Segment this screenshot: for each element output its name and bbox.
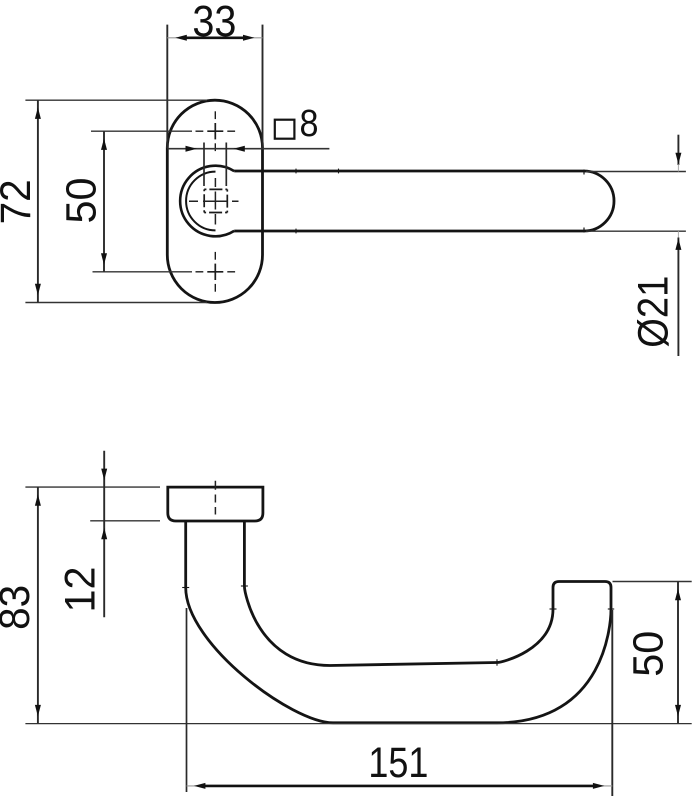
- bar junction tick 3: [295, 229, 297, 234]
- dim square8 arrow left: [186, 146, 198, 152]
- dim 151 line: [187, 785, 613, 787]
- dim 33 extension line right: [262, 25, 264, 148]
- square symbol of label: [275, 120, 295, 139]
- joint tick tip right: [608, 608, 614, 610]
- dim 151 extension line right: [611, 610, 613, 796]
- dim 50 arrow top: [101, 138, 107, 150]
- dim 12 line: [103, 451, 105, 618]
- dim 72 line: [37, 100, 39, 302]
- dim 33 extension line left: [166, 25, 168, 148]
- bar junction tick 2: [338, 169, 340, 174]
- svg-text:50: 50: [58, 178, 106, 224]
- screw hole cross bottom: [196, 252, 236, 292]
- bottom tangent extension line: [25, 723, 691, 725]
- dim dia21 line: [677, 135, 679, 165]
- dim 50 line: [103, 131, 105, 272]
- dim 151 arrow right: [593, 783, 605, 789]
- dim dia21 arrow bottom: [675, 238, 681, 250]
- dim square8 leader line: [167, 148, 329, 150]
- dim 83 extension line top: [25, 486, 160, 488]
- dim 50b arrow top: [675, 589, 681, 601]
- spindle center line horizontal: [189, 200, 239, 202]
- dim 33 arrow left: [175, 35, 187, 41]
- dim 50b arrow bottom: [675, 705, 681, 717]
- dim 72 extension line top: [25, 99, 207, 101]
- dim 83 line: [37, 487, 39, 723]
- handle side profile outline: [186, 521, 611, 723]
- dim dia21 extension line bottom: [586, 230, 686, 232]
- dim 83 arrow top: [35, 494, 41, 506]
- handle bar outline: [234, 171, 614, 231]
- svg-text:83: 83: [0, 585, 39, 630]
- svg-text:72: 72: [0, 179, 40, 224]
- dim 72 arrow bottom: [35, 284, 41, 296]
- dim 83 arrow bottom: [35, 705, 41, 717]
- dim 72 extension line bottom: [25, 302, 207, 304]
- dim 12 extension line bottom: [90, 520, 160, 522]
- dim 50 extension line bottom: [93, 271, 193, 273]
- spindle square (dashed): [204, 189, 227, 212]
- dim 12 arrow top: [101, 469, 107, 481]
- svg-text:50: 50: [625, 631, 673, 677]
- dim 50 arrow bottom: [101, 253, 107, 264]
- dim 12 arrow bottom: [101, 528, 107, 540]
- collar outer arc: [180, 166, 234, 237]
- joint tick neck right: [241, 585, 248, 587]
- joint tick neck left: [182, 587, 189, 589]
- dim 50b line: [677, 582, 679, 724]
- dim 151 arrow left: [194, 783, 206, 789]
- svg-text:8: 8: [300, 103, 319, 145]
- dim 33 arrow right: [243, 35, 255, 41]
- dim square8 arrow right: [233, 146, 245, 152]
- dim 72 arrow top: [35, 107, 41, 119]
- rosette center line: [214, 481, 216, 515]
- dim dia21 extension line top: [586, 171, 686, 173]
- screw hole cross top: [196, 111, 236, 151]
- joint tick tip left: [550, 608, 557, 610]
- cap tangent tick bottom: [583, 228, 585, 233]
- svg-text:33: 33: [192, 0, 236, 46]
- handle neck inner arc (bar left cap): [186, 172, 215, 231]
- joint tick inner bottom: [496, 659, 498, 665]
- dim 50 extension line top: [91, 130, 192, 132]
- dim square8 extension line right: [225, 143, 227, 187]
- svg-text:151: 151: [368, 739, 428, 787]
- bar junction tick 1: [295, 169, 297, 174]
- rosette side profile: [168, 487, 263, 521]
- svg-text:Ø21: Ø21: [629, 276, 677, 348]
- svg-text:12: 12: [57, 567, 105, 613]
- dim square8 extension line left: [203, 143, 205, 187]
- dim 151 extension line left: [186, 608, 188, 792]
- dim 33 line: [167, 37, 262, 39]
- oval rosette outline: [167, 100, 262, 302]
- cap tangent tick top: [583, 170, 585, 175]
- spindle center line vertical: [214, 178, 216, 225]
- dim 50b extension line top: [613, 581, 692, 583]
- dim dia21 arrow top: [675, 153, 681, 165]
